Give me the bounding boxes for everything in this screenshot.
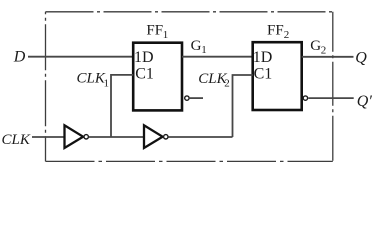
- dashed boundary box: [46, 12, 333, 162]
- wire: CLK2 node to FF2 C1: [233, 75, 253, 137]
- FF2 inverted-output bubble: [303, 96, 307, 100]
- svg-text:FF: FF: [267, 23, 284, 39]
- inverter 2 bubble: [164, 135, 168, 139]
- label CLK1: [77, 71, 110, 90]
- label FF2: [267, 23, 289, 42]
- svg-text:FF: FF: [146, 22, 163, 38]
- label FF1: [146, 22, 168, 41]
- wire: CLK1 node to FF1 C1: [111, 75, 133, 137]
- svg-text:1: 1: [163, 29, 169, 41]
- FF1 inverted-output bubble: [185, 96, 189, 100]
- label G1: [191, 38, 207, 56]
- svg-text:2: 2: [321, 44, 327, 56]
- inverter 1 triangle: [65, 125, 84, 148]
- svg-text:CLK: CLK: [77, 71, 106, 87]
- svg-text:C1: C1: [254, 66, 273, 83]
- svg-text:G: G: [310, 38, 321, 54]
- stub wire from FF1 bubble: [190, 97, 203, 99]
- flip-flop FF2 box: [253, 42, 302, 110]
- flip-flop FF1 box: [133, 43, 182, 111]
- svg-text:1: 1: [201, 44, 207, 56]
- svg-text:D: D: [13, 49, 26, 66]
- svg-text:C1: C1: [135, 66, 154, 83]
- svg-text:Q: Q: [355, 49, 367, 66]
- inverter 1 bubble: [84, 135, 88, 139]
- wire: inverter2 output rail (CLK2 rail): [168, 136, 232, 138]
- svg-text:1: 1: [104, 78, 110, 90]
- wire: CLK input to inverter 1: [32, 136, 65, 138]
- label CLK2: [198, 71, 229, 90]
- svg-text:2: 2: [284, 29, 290, 41]
- wire: Q output: [302, 56, 354, 58]
- wire: inverter1 output to inverter2 input (CLK1 rail): [89, 136, 144, 138]
- svg-text:Q′: Q′: [357, 93, 373, 110]
- svg-text:G: G: [191, 38, 202, 54]
- svg-text:CLK: CLK: [2, 132, 31, 148]
- wire: Q' output: [308, 97, 353, 99]
- wire: G1 (FF1 output to FF2 1D): [182, 56, 253, 58]
- label G2: [310, 38, 326, 56]
- svg-text:2: 2: [224, 77, 230, 89]
- svg-text:1D: 1D: [134, 49, 154, 66]
- inverter 2 triangle: [144, 125, 163, 148]
- wire: D input to FF1 1D: [28, 56, 133, 58]
- svg-text:1D: 1D: [253, 49, 273, 66]
